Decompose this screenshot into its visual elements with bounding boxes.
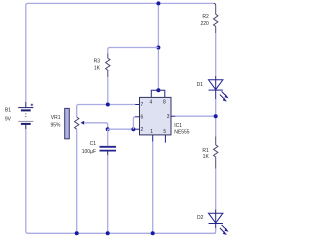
svg-text:9V: 9V: [5, 116, 12, 122]
svg-text:5: 5: [163, 129, 166, 135]
svg-text:VR1: VR1: [51, 115, 61, 121]
wire pin7 row (VR1 top to IC pin 7): [77, 105, 136, 118]
svg-text:95%: 95%: [50, 123, 61, 129]
svg-text:B1: B1: [5, 108, 11, 114]
wire pin1 to bottom rail: [152, 142, 154, 234]
svg-text:NE555: NE555: [174, 129, 190, 135]
potentiometer VR1: [65, 108, 70, 138]
svg-text:3: 3: [167, 114, 170, 120]
node wiper / C1 junction: [106, 127, 110, 131]
svg-text:R2: R2: [202, 14, 209, 20]
svg-text:2: 2: [141, 127, 144, 133]
node pin6 branch junction: [131, 127, 135, 131]
node R3 / pin7 junction: [106, 103, 110, 107]
resistor R2: [214, 3, 216, 14]
wire R3 bottom to pin7 row: [107, 77, 109, 105]
wire VR1 bottom to bottom rail: [76, 129, 78, 233]
svg-text:IC1: IC1: [174, 123, 182, 129]
wire top rail: [28, 2, 214, 4]
wire left rail lower (battery to bottom rail): [26, 129, 28, 233]
battery B1: [18, 102, 33, 129]
svg-text:D1: D1: [197, 82, 204, 88]
node VR1 bottom rail junction: [75, 231, 79, 235]
wire pin3 to D1/R1 node: [175, 115, 215, 117]
wire C1 bottom to bottom rail: [107, 155, 109, 233]
IC1 pin stub right (pin 3): [171, 115, 175, 117]
wire R2 to D1: [215, 33, 217, 76]
node pin1 bottom rail junction: [151, 231, 155, 235]
IC1 pin stub bottom pin 5: [164, 135, 166, 143]
node R3 top junction: [156, 46, 160, 50]
svg-text:C1: C1: [90, 141, 97, 147]
resistor R1: [214, 137, 218, 169]
svg-text:D2: D2: [197, 215, 204, 221]
wire left rail upper (top rail to battery): [26, 3, 28, 102]
node C1 bottom rail junction: [106, 231, 110, 235]
wire bottom rail: [28, 232, 216, 234]
LED D1: [209, 76, 227, 99]
node IC bracket junction: [156, 88, 160, 92]
IC1 body: [140, 97, 172, 134]
IC1 pin stub bottom pin 1: [152, 135, 154, 142]
svg-text:7: 7: [141, 102, 144, 108]
svg-text:220: 220: [200, 21, 209, 27]
wire pin6 branch: [133, 117, 135, 129]
battery plus sign: [31, 104, 34, 107]
svg-text:1: 1: [150, 129, 153, 135]
svg-text:1K: 1K: [94, 66, 101, 72]
svg-text:4: 4: [150, 100, 153, 106]
wire VR1 wiper to pin2 row: [84, 123, 108, 129]
wire R3 top horizontal: [108, 48, 159, 54]
node top rail junction: [156, 1, 160, 5]
svg-text:100µF: 100µF: [82, 149, 96, 155]
wire R1 to D2: [215, 169, 217, 210]
capacitor C1: [107, 129, 109, 145]
IC1 pin stubs left: [135, 105, 139, 130]
wire supply branch (top rail down to IC bracket): [157, 3, 159, 90]
IC1 pin4/8 bracket: [151, 90, 165, 97]
svg-text:6: 6: [141, 115, 144, 121]
LED D2: [209, 210, 227, 233]
wire D1 to R1 (through node): [215, 99, 217, 137]
svg-text:1K: 1K: [203, 154, 210, 160]
wire D2 to bottom rail: [214, 228, 216, 233]
node pin3 / D1 / R1 junction: [214, 114, 218, 118]
svg-text:8: 8: [163, 100, 166, 106]
svg-text:R3: R3: [94, 58, 101, 64]
wire pin2 row: [108, 128, 136, 130]
VR1 wiper arrow: [81, 121, 85, 125]
svg-text:R1: R1: [202, 148, 209, 154]
resistor R3: [106, 54, 110, 78]
